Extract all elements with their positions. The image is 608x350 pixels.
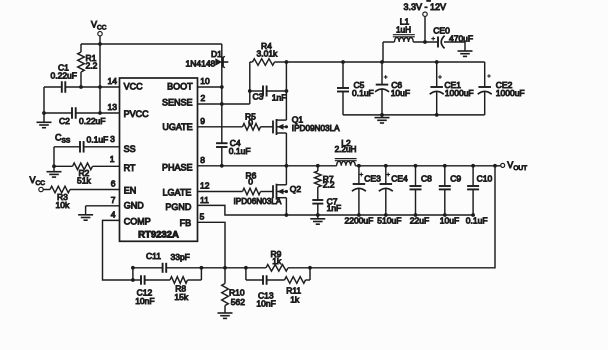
wire Q2 source vertical bbox=[285, 198, 287, 215]
wire FB pin5 bbox=[198, 222, 226, 267]
capacitor C6 bbox=[375, 60, 410, 117]
svg-text:1: 1 bbox=[110, 154, 115, 164]
terminal VCC (enable) bbox=[30, 175, 46, 192]
svg-text:10nF: 10nF bbox=[135, 296, 154, 306]
node C4/PHASE bbox=[220, 164, 224, 168]
IC U1 left pin names bbox=[124, 82, 151, 227]
svg-text:7: 7 bbox=[111, 195, 116, 205]
node feedback left bbox=[200, 266, 204, 270]
svg-text:2.2: 2.2 bbox=[323, 180, 335, 190]
wire GND pin7 bbox=[86, 205, 120, 207]
svg-text:562: 562 bbox=[231, 297, 245, 307]
svg-text:0.1uF: 0.1uF bbox=[352, 88, 374, 98]
resistor R3 bbox=[43, 186, 119, 210]
svg-text:0.22uF: 0.22uF bbox=[51, 71, 77, 81]
node R9 network left bbox=[244, 266, 248, 270]
wire input rail bbox=[286, 61, 484, 63]
ground R10 bbox=[218, 312, 233, 314]
resistor R5 (UGATE) bbox=[198, 112, 274, 130]
node R4 right / input rail bbox=[285, 60, 289, 64]
svg-text:1N4148: 1N4148 bbox=[186, 59, 216, 69]
wire COMP pin4 loop bbox=[103, 220, 133, 280]
capacitor CE4 bbox=[377, 164, 408, 226]
resistor R10 bbox=[222, 268, 246, 313]
svg-text:C2: C2 bbox=[59, 116, 70, 126]
svg-text:5: 5 bbox=[200, 212, 205, 222]
IC U1 RT9232A box bbox=[120, 78, 198, 241]
svg-text:SS: SS bbox=[124, 144, 136, 154]
svg-text:0.22uF: 0.22uF bbox=[79, 116, 105, 126]
svg-text:IPD09N03LA: IPD09N03LA bbox=[292, 124, 340, 133]
svg-text:UGATE: UGATE bbox=[162, 122, 192, 132]
capacitor C9 bbox=[439, 164, 462, 226]
wire VCC terminal stem bbox=[99, 36, 101, 44]
svg-text:22uF: 22uF bbox=[410, 216, 429, 226]
capacitor C13 bbox=[246, 275, 285, 308]
svg-text:10k: 10k bbox=[56, 200, 70, 210]
wire VOUT feedback vertical bbox=[310, 166, 495, 268]
node pin14/vertical feed bbox=[98, 85, 102, 89]
wire VCC pin14 line bbox=[44, 86, 62, 88]
svg-text:CE0: CE0 bbox=[433, 25, 450, 35]
capacitor CE3 bbox=[345, 164, 382, 226]
capacitor C12 bbox=[133, 275, 170, 306]
capacitor C5 bbox=[337, 60, 374, 115]
svg-text:51k: 51k bbox=[77, 175, 91, 185]
resistor R9 bbox=[246, 249, 310, 271]
svg-text:C8: C8 bbox=[421, 174, 432, 184]
node PHASE / Q1 source / Q2 drain bbox=[285, 164, 289, 168]
wire VCC top rail bbox=[81, 43, 222, 45]
wire Q1 drain vertical bbox=[285, 62, 287, 120]
svg-text:8: 8 bbox=[200, 155, 205, 165]
resistor R7 (snubber) bbox=[315, 166, 335, 200]
wire Q2 drain vertical bbox=[285, 166, 287, 185]
node SENSE/D1 vertical bbox=[220, 102, 224, 106]
capacitor C2 bbox=[59, 107, 105, 126]
IC U1 right pin numbers bbox=[200, 76, 210, 222]
wire R9 network lower branch bbox=[245, 268, 247, 280]
svg-text:1000uF: 1000uF bbox=[496, 88, 525, 98]
terminal input 3.3V-12V bbox=[404, 0, 447, 16]
svg-text:PGND: PGND bbox=[165, 202, 192, 212]
svg-text:0.1uF: 0.1uF bbox=[466, 216, 488, 226]
node CSS/RT junction bbox=[52, 164, 56, 168]
node C7 bottom rail bbox=[316, 213, 320, 217]
svg-text:D1: D1 bbox=[211, 49, 222, 59]
node Q2 source / ground rail bbox=[285, 213, 289, 217]
wire C11 network right vertical bbox=[200, 268, 202, 280]
capacitor C1 bbox=[51, 63, 77, 93]
resistor R11 bbox=[285, 277, 311, 305]
node input/CE0 bbox=[423, 40, 427, 44]
node COMP network bbox=[131, 278, 135, 282]
svg-text:510uF: 510uF bbox=[377, 216, 401, 226]
svg-text:PVCC: PVCC bbox=[124, 109, 150, 119]
svg-text:GND: GND bbox=[124, 201, 145, 211]
resistor R6 (LGATE) bbox=[198, 171, 274, 195]
svg-text:IPD06N03LA: IPD06N03LA bbox=[234, 197, 282, 206]
svg-text:C11: C11 bbox=[146, 251, 161, 261]
ground input rail (below C6) bbox=[381, 115, 383, 118]
wire VCC vertical feed to pins 14/13 bbox=[99, 44, 101, 113]
wire BOOT pin10 bbox=[198, 86, 222, 88]
wire SENSE pin2 bbox=[198, 103, 250, 105]
resistor R2 bbox=[54, 163, 120, 185]
node C3 left branch bbox=[248, 89, 252, 93]
svg-text:RT9232A: RT9232A bbox=[138, 229, 179, 240]
wire R4/C3 left vertical bbox=[249, 62, 251, 104]
svg-text:C9: C9 bbox=[450, 174, 461, 184]
svg-text:1000uF: 1000uF bbox=[445, 88, 474, 98]
svg-text:3: 3 bbox=[110, 134, 115, 144]
svg-text:2: 2 bbox=[201, 93, 206, 103]
svg-text:3.3V - 12V: 3.3V - 12V bbox=[404, 2, 447, 12]
svg-text:4: 4 bbox=[111, 210, 116, 220]
node FB/R10 bbox=[223, 266, 227, 270]
svg-text:11: 11 bbox=[200, 195, 209, 205]
svg-text:FB: FB bbox=[180, 218, 192, 228]
resistor R8 bbox=[170, 277, 201, 302]
svg-text:0.1uF: 0.1uF bbox=[229, 146, 251, 156]
wire left bypass vertical bbox=[43, 87, 45, 122]
svg-text:0: 0 bbox=[248, 177, 253, 187]
svg-text:CE4: CE4 bbox=[391, 174, 408, 184]
svg-text:C10: C10 bbox=[477, 174, 493, 184]
wire CSS left vertical bbox=[53, 147, 55, 167]
diode D1 1N4148 bbox=[186, 44, 229, 143]
svg-text:3.01k: 3.01k bbox=[257, 49, 279, 59]
node C3 right / Q1 drain branch bbox=[285, 89, 289, 93]
resistor R4 bbox=[250, 41, 287, 66]
svg-text:PHASE: PHASE bbox=[162, 163, 193, 173]
terminal VOUT bbox=[495, 160, 527, 172]
wire C11 network left vertical bbox=[132, 268, 134, 280]
ground CE0 bbox=[458, 50, 473, 52]
svg-text:9: 9 bbox=[200, 116, 205, 126]
wire PVCC pin13 line bbox=[44, 112, 72, 114]
svg-text:33pF: 33pF bbox=[171, 252, 190, 262]
ground below C1/C2 bbox=[37, 121, 52, 123]
svg-text:BOOT: BOOT bbox=[167, 82, 193, 92]
IC U1 right pin names bbox=[162, 82, 193, 229]
svg-text:LGATE: LGATE bbox=[163, 188, 192, 198]
svg-text:RT: RT bbox=[124, 163, 136, 173]
wire PGND pin11 to ground rail bbox=[198, 205, 474, 215]
svg-text:2.2uH: 2.2uH bbox=[335, 145, 357, 154]
transistor Q1 IPD09N03LA bbox=[273, 115, 340, 135]
node R1 bottom / C1 right bbox=[79, 85, 83, 89]
capacitor C3 bbox=[250, 86, 287, 103]
capacitor C10 bbox=[466, 164, 493, 226]
node R9 network right bbox=[308, 266, 312, 270]
svg-text:1k: 1k bbox=[272, 256, 282, 266]
svg-text:14: 14 bbox=[108, 76, 118, 86]
wire Q1 source vertical bbox=[285, 133, 287, 166]
svg-text:13: 13 bbox=[108, 102, 118, 112]
node VCC rail junction bbox=[98, 42, 102, 46]
wire input top line bbox=[413, 41, 438, 43]
svg-text:COMP: COMP bbox=[124, 216, 151, 226]
svg-text:10nF: 10nF bbox=[256, 298, 275, 308]
capacitor CSS (soft-start) bbox=[54, 133, 120, 153]
svg-text:0.1uF: 0.1uF bbox=[87, 134, 109, 144]
svg-text:10uF: 10uF bbox=[391, 88, 410, 98]
ground on power ground rail (below C7) bbox=[317, 215, 319, 219]
svg-text:10: 10 bbox=[200, 76, 210, 86]
capacitor CE1 bbox=[430, 60, 474, 117]
svg-text:SENSE: SENSE bbox=[162, 97, 193, 107]
svg-text:10uF: 10uF bbox=[440, 216, 459, 226]
node BOOT/D1 bbox=[220, 85, 224, 89]
svg-text:1k: 1k bbox=[290, 294, 300, 304]
ground below RT bbox=[53, 166, 55, 171]
capacitor CE0 bbox=[431, 25, 473, 51]
wire input bottom rail bbox=[343, 114, 485, 116]
wire output rail bbox=[355, 165, 495, 167]
inductor L2 bbox=[335, 138, 357, 166]
svg-text:2200uF: 2200uF bbox=[345, 216, 374, 226]
svg-text:15k: 15k bbox=[174, 292, 188, 302]
svg-text:0: 0 bbox=[248, 117, 253, 127]
node VOUT junction bbox=[493, 164, 497, 168]
wire feedback line bbox=[201, 267, 246, 269]
capacitor C11 bbox=[131, 251, 201, 273]
svg-text:C3: C3 bbox=[253, 92, 264, 102]
node C2 left bbox=[42, 111, 46, 115]
node PVCC junction bbox=[98, 111, 102, 115]
terminal VCC (top input) bbox=[91, 20, 107, 36]
svg-text:VCC: VCC bbox=[124, 82, 144, 92]
svg-text:1uH: 1uH bbox=[396, 26, 411, 35]
svg-text:1nF: 1nF bbox=[327, 203, 342, 213]
svg-text:CE3: CE3 bbox=[364, 174, 381, 184]
IC U1 left pin numbers bbox=[108, 76, 118, 220]
svg-text:2.2: 2.2 bbox=[86, 61, 98, 71]
capacitor C4 bbox=[216, 138, 251, 166]
svg-text:6: 6 bbox=[111, 179, 116, 189]
node R7/PHASE bbox=[316, 164, 320, 168]
svg-text:1nF: 1nF bbox=[272, 93, 287, 103]
svg-text:12: 12 bbox=[200, 181, 210, 191]
svg-text:EN: EN bbox=[124, 186, 137, 196]
wire input terminal stem bbox=[424, 16, 426, 42]
svg-text:Q1: Q1 bbox=[292, 115, 304, 125]
capacitor C8 bbox=[410, 164, 433, 226]
inductor L1 bbox=[383, 17, 415, 62]
svg-text:Q2: Q2 bbox=[290, 184, 302, 194]
wire PHASE pin8 bbox=[198, 165, 337, 167]
capacitor C7 (snubber) bbox=[312, 197, 341, 215]
resistor R1 bbox=[78, 44, 98, 87]
transistor Q2 IPD06N03LA bbox=[234, 184, 302, 207]
capacitor CE2 bbox=[478, 62, 525, 115]
ground pin7 bbox=[78, 214, 93, 216]
